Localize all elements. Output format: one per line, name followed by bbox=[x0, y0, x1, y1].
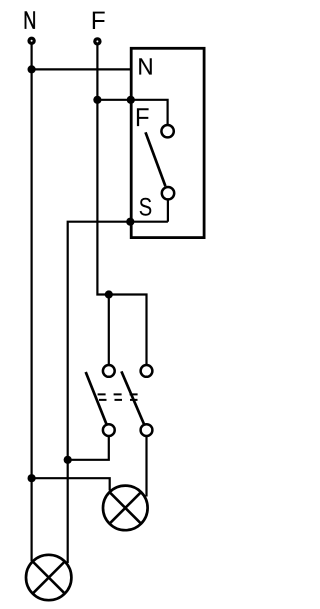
node N junction bbox=[28, 65, 36, 73]
node F at box edge bbox=[127, 96, 135, 104]
mechanical link dashed lower bbox=[99, 399, 138, 401]
contact F (box switch upper) bbox=[161, 125, 173, 137]
wire N to lamp E2 bbox=[32, 478, 110, 490]
label N (supply) bbox=[25, 11, 35, 28]
wire branch to left switch pole bbox=[108, 295, 110, 366]
wire S out of box bbox=[68, 222, 168, 563]
contact left pole bottom bbox=[103, 424, 115, 436]
label F (box) bbox=[137, 108, 149, 126]
contact right pole bottom bbox=[141, 424, 153, 436]
switch lever right pole bbox=[121, 371, 144, 424]
wire F vertical and branch to right switch pole bbox=[97, 45, 146, 365]
node S at box edge bbox=[126, 218, 134, 226]
node F branch junction bbox=[105, 290, 113, 298]
mechanical link dashed upper bbox=[98, 393, 139, 395]
wire F to box and inner F contact bbox=[97, 100, 167, 125]
lamp E2 circle bbox=[103, 486, 148, 531]
label F (supply) bbox=[93, 12, 105, 29]
lamp E2 cross bbox=[110, 492, 142, 524]
lamp E1 cross bbox=[33, 562, 65, 594]
wire N to box bbox=[32, 68, 133, 70]
contact left pole top bbox=[103, 365, 115, 377]
label S (box) bbox=[140, 198, 152, 216]
label N (box) bbox=[139, 58, 151, 74]
wire right pole to lamp E2 bbox=[145, 436, 147, 497]
switch lever left pole bbox=[86, 372, 107, 425]
terminal N bbox=[29, 38, 34, 43]
device box N F S bbox=[131, 48, 204, 237]
wire N vertical bbox=[31, 44, 33, 561]
switch lever (box) bbox=[146, 132, 166, 186]
node S lamp junction bbox=[64, 456, 72, 464]
contact S (box switch lower) bbox=[162, 187, 174, 199]
node N lamp junction bbox=[28, 474, 36, 482]
contact right pole top bbox=[141, 365, 153, 377]
terminal F bbox=[95, 39, 100, 44]
lamp E1 circle bbox=[26, 555, 71, 600]
node F junction bbox=[93, 96, 101, 104]
wire left pole to S node bbox=[68, 436, 109, 460]
wire S contact to box edge bbox=[167, 200, 169, 222]
